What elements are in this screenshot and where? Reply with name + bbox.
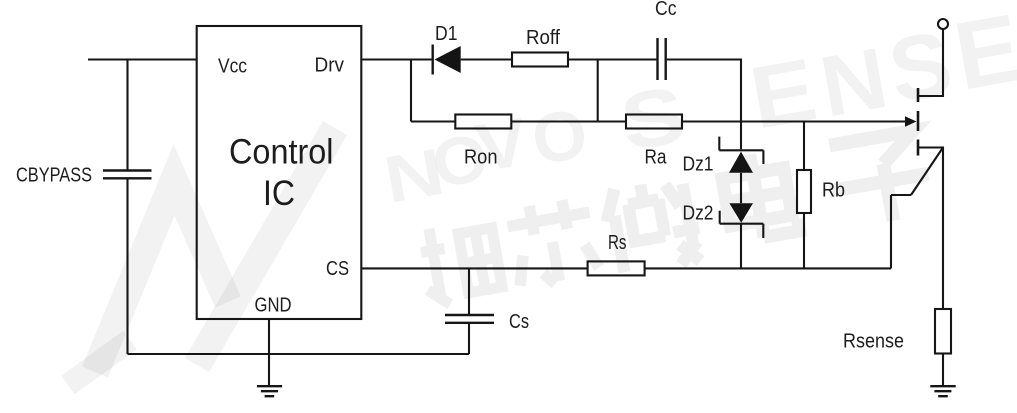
transistor Q1 xyxy=(917,88,920,156)
svg-text:CS: CS xyxy=(326,258,349,280)
wire sense diagonal to source xyxy=(911,148,943,196)
IC U1 Control IC box xyxy=(197,26,362,319)
diode D1 xyxy=(433,45,461,75)
resistor Ra xyxy=(626,115,682,129)
wire GND pin xyxy=(268,319,270,386)
wire junction Roff-Ron xyxy=(597,60,599,122)
svg-text:D1: D1 xyxy=(435,23,458,45)
watermark chinese char 3 xyxy=(601,176,705,276)
wire drain xyxy=(919,29,943,96)
watermark chinese char 2 xyxy=(505,196,601,290)
wire Rs to sense node xyxy=(645,267,891,269)
wire bottom bus xyxy=(128,353,470,355)
wire Rb branch bottom xyxy=(803,213,805,268)
resistor Rsense xyxy=(935,309,951,354)
wire between zeners xyxy=(740,173,742,203)
resistor Rb xyxy=(797,170,811,213)
wire Roff to Cc xyxy=(568,58,656,60)
capacitor Cc xyxy=(658,38,666,80)
resistor Ron xyxy=(455,115,511,129)
watermark chinese char 4 xyxy=(719,148,800,242)
svg-text:GND: GND xyxy=(255,295,292,317)
wire Ron to Ra xyxy=(511,120,626,122)
watermark chinese char 5 xyxy=(822,129,935,230)
wire Rsense to ground xyxy=(942,354,944,386)
svg-text:Roff: Roff xyxy=(526,27,560,49)
wire Drv xyxy=(361,58,432,60)
resistor Rs xyxy=(588,261,645,275)
wire Cs bottom xyxy=(468,324,470,354)
zener Dz2 xyxy=(720,203,764,238)
wire CS xyxy=(361,267,587,269)
svg-text:Cs: Cs xyxy=(509,311,529,333)
resistor Roff xyxy=(512,53,568,67)
wire Cs branch xyxy=(468,268,470,314)
ground Rsense xyxy=(930,386,955,396)
wire source xyxy=(919,148,943,310)
wire Vcc top xyxy=(88,58,197,60)
wire Drv branch down xyxy=(410,60,412,122)
svg-text:Cc: Cc xyxy=(655,0,677,20)
svg-text:Rsense: Rsense xyxy=(843,330,904,352)
svg-text:CBYPASS: CBYPASS xyxy=(16,165,92,187)
svg-text:Drv: Drv xyxy=(315,55,345,77)
wire gate xyxy=(682,116,917,126)
capacitor Cs xyxy=(445,315,494,323)
wire CBYPASS branch top xyxy=(126,60,128,170)
ground IC xyxy=(257,386,282,396)
watermark chinese char 1 xyxy=(417,218,503,308)
wire CBYPASS branch bottom xyxy=(126,180,128,355)
terminal circle drain xyxy=(938,19,948,29)
capacitor CBYPASS xyxy=(103,171,152,179)
watermark logo N xyxy=(68,128,335,385)
wire Cc to corner xyxy=(667,60,741,150)
wire sense vertical xyxy=(890,195,892,268)
svg-text:Vcc: Vcc xyxy=(218,56,247,78)
wire sense horizontal xyxy=(891,194,911,196)
wire Dz2 to CS bus xyxy=(740,224,742,269)
wire Rb branch top xyxy=(803,122,805,171)
watermark NOVOSENSE text xyxy=(379,0,1017,217)
wire Ron row xyxy=(411,120,455,122)
zener Dz1 xyxy=(719,137,763,173)
wire D1 to Roff xyxy=(461,58,512,60)
